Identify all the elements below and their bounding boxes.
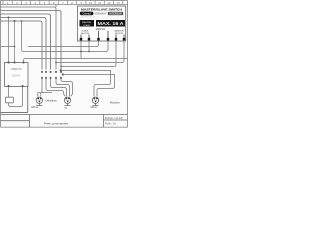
wire mains bus y46.5 to pin x98.5	[1, 41, 99, 47]
svg-text:Mono: Mono	[32, 105, 39, 109]
svg-text:Utilisation: Utilisation	[46, 98, 58, 102]
svg-text:OMRON: OMRON	[11, 67, 22, 71]
svg-text:12: 12	[107, 1, 111, 5]
wire stub x56 to scale band	[55, 5, 57, 7]
svg-text:11: 11	[98, 1, 101, 5]
U1 pin squares	[80, 38, 126, 41]
wire socket U pin stubs	[38, 93, 41, 97]
svg-text:10: 10	[89, 1, 93, 5]
terminal row2 squares	[41, 77, 62, 79]
node dot x14.5 y46.5	[14, 46, 16, 48]
U1 black box MAX 16 A	[96, 20, 125, 27]
svg-text:Prise commandée: Prise commandée	[44, 121, 69, 125]
wire N bus y17.5 to corner x46	[1, 18, 47, 70]
wire bar y92.5	[38, 92, 52, 94]
node tap x14.5 on y21	[14, 20, 16, 22]
relay pin marks top	[8, 62, 25, 64]
wire x50.5 corner y87.5 to x66.5 down to socket T pin1	[51, 79, 67, 96]
master/slave switch box U1	[78, 6, 126, 41]
wire bus y58.5 from relay pin to right border	[24, 59, 128, 63]
node dot x61 y66.5	[60, 66, 62, 68]
socket T (middle)	[64, 97, 70, 105]
svg-text:GERMANY: GERMANY	[94, 13, 107, 16]
relay K1 box	[5, 63, 29, 87]
border frame	[1, 0, 128, 127]
svg-text:MAX. 16 A: MAX. 16 A	[98, 21, 124, 26]
relay pin marks bottom	[8, 85, 24, 87]
column numbers	[7, 1, 120, 5]
wire x14.5 down to relay top pin	[14, 21, 16, 63]
enclosure boundary	[1, 87, 28, 113]
svg-text:230VAC: 230VAC	[12, 75, 21, 78]
wire y74.5 to corner x114.5 down to socket M pin2	[64, 75, 115, 97]
node dot x89 y51.5	[88, 51, 90, 53]
wire x61 corner y81.5 to x72.5 down to socket T	[61, 79, 73, 96]
node tap x21.5 on y21	[21, 20, 23, 22]
node dot x56 y62.5	[55, 62, 57, 64]
svg-text:SLAVE: SLAVE	[83, 24, 90, 27]
wire x42 down to slave socket bar	[41, 79, 43, 93]
wire coil bottom loop to relay right pin	[9, 87, 23, 107]
coil symbol	[6, 97, 14, 103]
svg-text:MASTER/SLAVE SWITCH: MASTER/SLAVE SWITCH	[81, 7, 123, 11]
title block	[1, 115, 128, 128]
svg-text:INTERBOR: INTERBOR	[110, 14, 122, 16]
wire x21.5 down corner to bus y51.5	[22, 21, 107, 52]
wire master pin x124 down corner to y62.5	[56, 41, 124, 63]
wire slave pin x81 down to y58.5	[80, 41, 82, 59]
node dot x81 y51.5	[80, 51, 82, 53]
wire y70.5 to corner x110.5 down to socket M pin1	[62, 71, 111, 97]
svg-text:230V AC: 230V AC	[96, 28, 106, 31]
svg-text:Mono: Mono	[91, 105, 98, 109]
wire x8.5 down to relay top pin	[8, 18, 10, 63]
node tap x8.5 on y17.5	[8, 17, 10, 19]
svg-text:master-slave: master-slave	[81, 16, 97, 19]
socket M (Machine)	[92, 97, 98, 105]
svg-text:Fichier: U1.sch: Fichier: U1.sch	[105, 116, 123, 120]
U1 pin ticks	[81, 31, 124, 38]
wire master pin x116 down corner to y66.5	[61, 41, 116, 67]
terminal row1 squares	[41, 71, 62, 73]
svg-text:13: 13	[116, 1, 120, 5]
socket U (Utilisation)	[36, 97, 42, 105]
svg-text:Machine: Machine	[110, 101, 120, 105]
U1 logo pill	[80, 12, 94, 16]
wire slave pin x89 down to y51.5	[88, 41, 90, 52]
U1 black box A	[80, 20, 95, 27]
svg-text:MASTER: MASTER	[82, 21, 92, 24]
U1 right tag	[108, 12, 123, 15]
column ticks	[3, 0, 123, 4]
svg-text:Folio: 1/1: Folio: 1/1	[105, 121, 117, 125]
wire PE bus y21 to corner x42	[1, 21, 43, 70]
connector pin right row1	[60, 70, 62, 72]
wire L2 bus y10.5 to corner x61	[1, 11, 62, 70]
wire L3 bus y14 to corner x50.5	[1, 14, 51, 70]
wire L1 bus y7 to corner x56	[1, 7, 57, 70]
column scale line	[0, 4, 128, 6]
svg-text:Conrad: Conrad	[83, 13, 92, 16]
wire relay coil left down	[8, 87, 10, 98]
wire bus y51.5 corner up to pin x108	[106, 41, 108, 52]
wire x56 corner y84.5 to x69.5 down to socket T pin2	[56, 79, 70, 96]
svg-text:DEVICE: DEVICE	[81, 33, 90, 35]
wire x46 corner y90.5 to x63.5 down to socket T	[46, 79, 65, 96]
connector pin right row2	[62, 74, 64, 76]
